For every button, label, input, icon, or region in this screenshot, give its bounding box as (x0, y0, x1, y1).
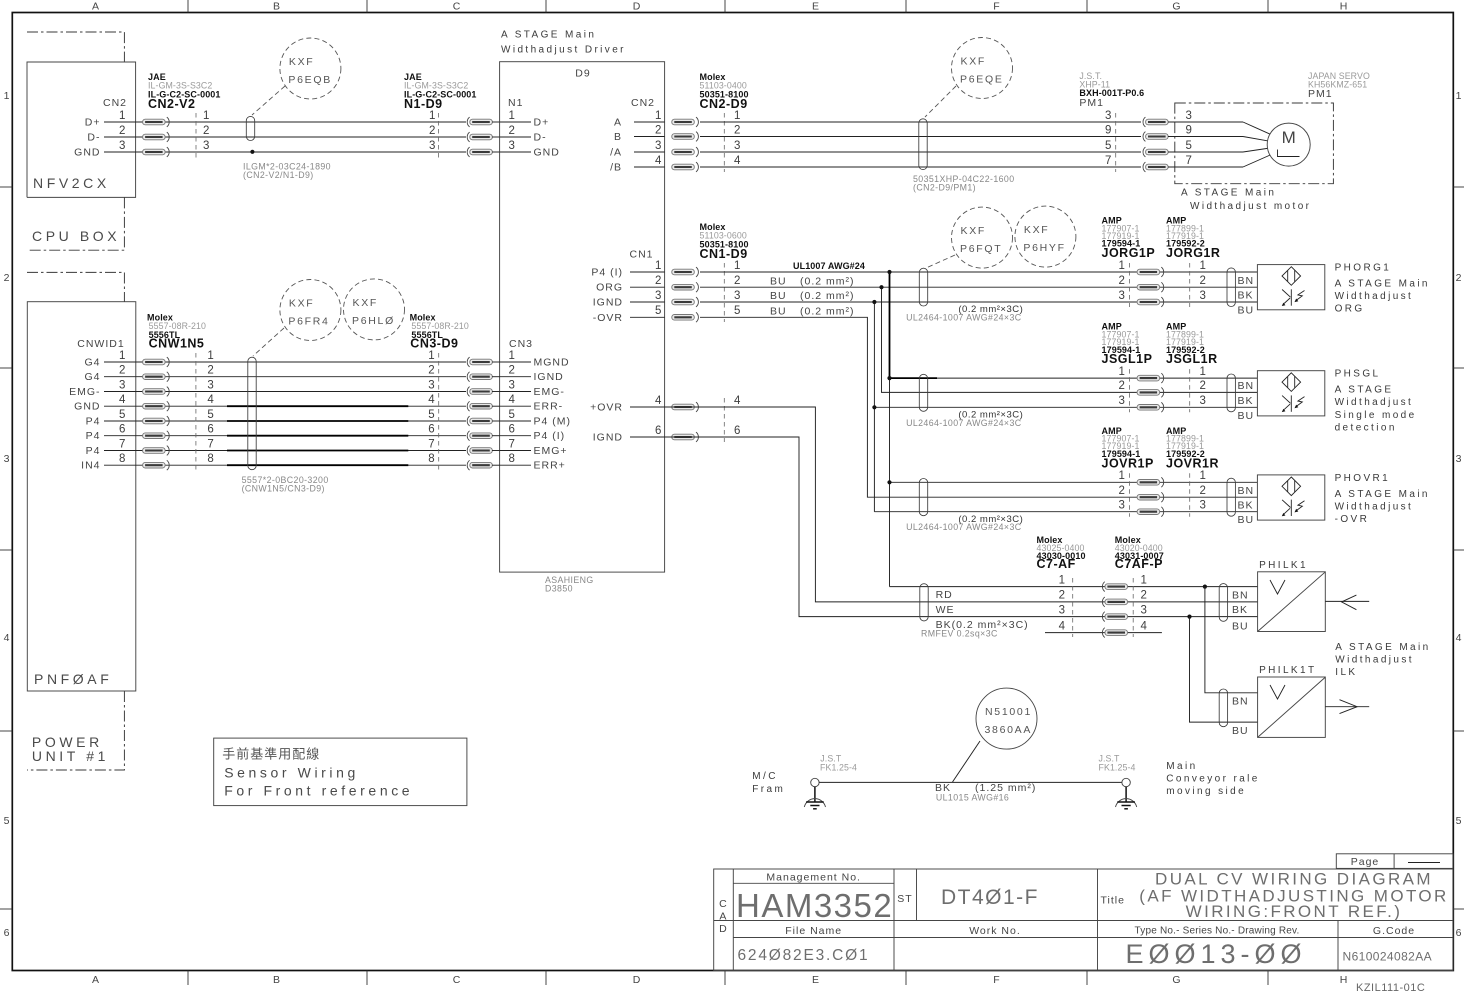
svg-text:PM1: PM1 (1308, 88, 1333, 100)
wire IGND to PHOVR1 pin3 (874, 511, 1257, 513)
connector N1 label (508, 97, 523, 109)
svg-text:(0.2 mm²): (0.2 mm²) (800, 290, 855, 302)
svg-text:UL2464-1007 AWG#24×3C: UL2464-1007 AWG#24×3C (906, 313, 1022, 323)
wire IGND feeder vertical (873, 302, 875, 512)
svg-text:CN1: CN1 (629, 249, 653, 261)
svg-text:JSGL1P: JSGL1P (1102, 352, 1153, 366)
svg-text:6: 6 (4, 927, 11, 939)
svg-text:G.Code: G.Code (1373, 925, 1415, 937)
svg-text:2: 2 (1119, 485, 1126, 497)
sensor box PHORG1 (1257, 265, 1324, 310)
svg-text:BK: BK (1232, 604, 1248, 616)
cable marker PHILK1 (1219, 584, 1227, 622)
svg-text:6: 6 (655, 425, 662, 437)
svg-text:1: 1 (1456, 90, 1463, 102)
svg-text:2: 2 (1059, 590, 1066, 602)
svg-text:E: E (812, 1, 820, 13)
svg-text:UL2464-1007 AWG#24×3C: UL2464-1007 AWG#24×3C (906, 418, 1022, 428)
dashed pin line JORG1R (1189, 263, 1191, 307)
svg-text:B: B (614, 131, 622, 143)
cable size label PHOVR1 (906, 514, 1023, 532)
svg-text:ST: ST (897, 893, 912, 905)
svg-text:手前基準用配線: 手前基準用配線 (222, 747, 320, 762)
terminal J.S.T right (1099, 754, 1136, 773)
svg-text:CN2-V2: CN2-V2 (148, 97, 195, 111)
svg-text:4: 4 (1059, 620, 1066, 632)
svg-text:6: 6 (119, 424, 126, 436)
svg-text:3: 3 (509, 379, 516, 391)
CNWID1 pin names and numbers (69, 350, 126, 472)
svg-text:/A: /A (610, 147, 622, 159)
svg-text:5: 5 (119, 409, 126, 421)
svg-text:C: C (453, 974, 462, 986)
svg-text:3: 3 (509, 140, 516, 152)
svg-text:Widthadjust: Widthadjust (1335, 291, 1414, 302)
junction dots CN1 nets (872, 270, 891, 485)
svg-text:2: 2 (734, 275, 741, 287)
svg-text:/B: /B (610, 162, 622, 174)
cable part number 5557 (242, 475, 329, 494)
svg-text:1: 1 (429, 110, 436, 122)
motor enclosure dash-dot box (1175, 103, 1334, 184)
CAD strip (719, 898, 728, 935)
svg-text:4: 4 (655, 395, 662, 407)
svg-text:3: 3 (1105, 110, 1112, 122)
file name value (738, 947, 870, 964)
svg-text:IN4: IN4 (81, 460, 100, 472)
svg-text:2: 2 (1141, 590, 1148, 602)
svg-text:P6EQB: P6EQB (288, 74, 332, 86)
cable size label PHORG1 (906, 304, 1023, 322)
svg-text:D9: D9 (575, 68, 590, 80)
svg-text:5: 5 (655, 305, 662, 317)
svg-text:3: 3 (119, 379, 126, 391)
type no header (1135, 926, 1300, 937)
svg-text:Single mode: Single mode (1335, 410, 1417, 421)
svg-text:JSGL1R: JSGL1R (1166, 352, 1218, 366)
PM1 crimp contacts (1143, 117, 1168, 172)
ground bonding wire (819, 781, 1122, 783)
CN1-D9 crimp contacts (672, 267, 699, 442)
svg-text:Fram: Fram (752, 784, 785, 795)
svg-text:IGND: IGND (593, 432, 623, 444)
svg-text:6: 6 (428, 424, 435, 436)
svg-text:1: 1 (734, 110, 741, 122)
svg-text:Conveyor rale: Conveyor rale (1166, 774, 1259, 785)
cable marker CN2-V2/N1-D9 (246, 116, 254, 140)
svg-text:2: 2 (509, 125, 516, 137)
CN2-D9 crimp contacts (672, 117, 699, 172)
svg-text:BN: BN (1232, 695, 1249, 707)
cable marker at sensor PHSGL (1227, 374, 1235, 412)
C7-AF pin4 stub (1045, 632, 1162, 634)
svg-text:4: 4 (509, 394, 516, 406)
svg-text:C: C (719, 898, 728, 910)
svg-text:2: 2 (1200, 380, 1207, 392)
svg-text:FK1.25-4: FK1.25-4 (820, 763, 857, 773)
PNF0AF label (34, 671, 112, 687)
dashed pin line CN3-D9 (438, 353, 440, 471)
svg-text:PHSGL: PHSGL (1335, 369, 1381, 380)
svg-text:D+: D+ (85, 117, 101, 129)
svg-text:Main: Main (1166, 761, 1197, 772)
svg-text:G4: G4 (84, 371, 100, 383)
cable part number ILGM (243, 162, 331, 181)
connector JORG1P pin numbers col1 (1119, 260, 1126, 302)
motor description (1181, 188, 1311, 213)
svg-text:A STAGE: A STAGE (1335, 385, 1394, 396)
wire P4(I) row1 (700, 271, 1257, 273)
wire P4(I) to PHSGL pin1 (890, 377, 1258, 379)
svg-text:2: 2 (1119, 380, 1126, 392)
svg-text:D: D (633, 1, 642, 13)
svg-text:BU: BU (770, 275, 787, 287)
svg-text:4: 4 (734, 395, 741, 407)
svg-text:(0.2 mm²): (0.2 mm²) (800, 306, 855, 318)
page box (1336, 854, 1453, 869)
svg-text:1: 1 (1059, 574, 1066, 586)
svg-text:4: 4 (207, 394, 214, 406)
junction dot BU net (1187, 615, 1191, 619)
CN2 driver pin stubs (610, 110, 665, 174)
balloon KXF P6FR4 (253, 280, 341, 357)
svg-text:GND: GND (74, 401, 100, 413)
D9 label (575, 68, 590, 80)
CN2-V2 pin numbers col2 (203, 110, 210, 152)
part block CN3-D9 (410, 313, 469, 351)
crimp contacts JOVR1P (1137, 477, 1164, 516)
svg-text:7: 7 (119, 438, 126, 450)
svg-text:A STAGE Main: A STAGE Main (1181, 188, 1276, 199)
wire CNWID1 rows thin (104, 362, 466, 465)
svg-text:D3850: D3850 (545, 584, 573, 594)
svg-text:A STAGE Main: A STAGE Main (1335, 489, 1430, 500)
ST cell (897, 893, 912, 905)
svg-text:3: 3 (1141, 604, 1148, 616)
svg-text:7: 7 (509, 438, 516, 450)
svg-text:3: 3 (734, 290, 741, 302)
svg-text:CNWID1: CNWID1 (77, 338, 124, 350)
wire CN2-D9 to PM1 (700, 122, 1141, 167)
svg-text:3: 3 (1200, 395, 1207, 407)
svg-text:KXF: KXF (961, 225, 987, 237)
svg-text:2: 2 (1456, 272, 1463, 284)
dashed pin line JOVR1P (1129, 473, 1131, 516)
sensor box PHSGL (1257, 371, 1324, 416)
junction on GND wire (250, 150, 254, 154)
svg-text:P6EQE: P6EQE (960, 74, 1004, 86)
main conveyor label (1166, 761, 1259, 797)
svg-text:8: 8 (428, 453, 435, 465)
wire +OVR to C7-AF pin2 (634, 407, 1258, 602)
Title label (1101, 895, 1125, 907)
dashed pin line CN1-D9 col2 (723, 263, 725, 442)
svg-text:CNW1N5: CNW1N5 (149, 337, 205, 351)
svg-text:3: 3 (119, 140, 126, 152)
cable marker RMFEV (920, 584, 928, 621)
svg-text:BU: BU (1232, 621, 1249, 633)
svg-text:8: 8 (119, 453, 126, 465)
AMP part block JORG1P/JORG1R (1102, 216, 1221, 261)
svg-text:3: 3 (1119, 395, 1126, 407)
wire BU to PHILK1T (1190, 617, 1258, 723)
svg-text:C7-AF: C7-AF (1037, 557, 1076, 571)
svg-text:FK1.25-4: FK1.25-4 (1099, 763, 1136, 773)
svg-text:2: 2 (207, 365, 214, 377)
svg-text:3: 3 (1200, 500, 1207, 512)
svg-text:B: B (273, 974, 281, 986)
svg-text:CN2: CN2 (103, 97, 127, 109)
svg-text:UL2464-1007 AWG#24×3C: UL2464-1007 AWG#24×3C (906, 522, 1022, 532)
svg-text:2: 2 (203, 125, 210, 137)
svg-text:IGND: IGND (593, 297, 623, 309)
svg-text:8: 8 (207, 453, 214, 465)
svg-text:ILK: ILK (1335, 667, 1357, 678)
svg-text:PHORG1: PHORG1 (1335, 263, 1392, 274)
svg-text:3: 3 (655, 290, 662, 302)
CN1 pin stubs lower (590, 395, 664, 444)
wire IGND row3 (700, 301, 1257, 303)
svg-text:JORG1R: JORG1R (1166, 246, 1220, 260)
svg-text:2: 2 (509, 365, 516, 377)
svg-text:3: 3 (428, 379, 435, 391)
N1 pin stubs (500, 110, 560, 159)
svg-text:P6HLØ: P6HLØ (352, 315, 395, 327)
part block CN2-D9 (700, 72, 749, 111)
svg-text:KXF: KXF (961, 56, 987, 68)
svg-text:C7AF-P: C7AF-P (1115, 557, 1163, 571)
svg-text:G: G (1172, 974, 1181, 986)
part block CNW1N5 (147, 313, 206, 351)
svg-text:(CN2-D9/PM1): (CN2-D9/PM1) (913, 183, 976, 193)
AMP part block JSGL1P/JSGL1R (1102, 322, 1218, 367)
PNF0AF box (27, 302, 136, 691)
NFV2CX label (33, 175, 110, 191)
wire ORG feeder to PHSGL pin2 (882, 287, 1258, 392)
ILK description (1335, 642, 1430, 678)
CN2 pin name labels (74, 117, 100, 159)
part block CN1-D9 (700, 222, 749, 261)
CN3 pin stubs (500, 350, 571, 472)
CPU BOX dash-dot boundary bottom (27, 197, 124, 250)
svg-text:P4: P4 (86, 416, 101, 428)
svg-text:RD: RD (936, 589, 953, 601)
svg-text:JORG1P: JORG1P (1102, 246, 1156, 260)
svg-text:BK: BK (1238, 499, 1254, 511)
cable part number 50351XHP (913, 174, 1015, 193)
gcode header (1373, 925, 1415, 937)
svg-text:4: 4 (4, 632, 11, 644)
wire ORG row2 (700, 286, 1257, 288)
svg-text:File Name: File Name (785, 925, 842, 937)
svg-text:D+: D+ (534, 117, 550, 129)
cable marker CN2-D9/PM1 (919, 119, 927, 170)
svg-text:4: 4 (734, 155, 741, 167)
svg-text:3: 3 (734, 140, 741, 152)
C7AF-P pin numbers col2 (1141, 574, 1148, 632)
connector CN2 label (103, 97, 127, 109)
svg-text:5: 5 (1456, 815, 1463, 827)
svg-text:P4 (I): P4 (I) (591, 267, 623, 279)
svg-text:WE: WE (936, 604, 955, 616)
svg-text:D: D (719, 923, 728, 935)
svg-text:6: 6 (1456, 927, 1463, 939)
svg-text:1: 1 (1200, 260, 1207, 272)
svg-text:Widthadjust motor: Widthadjust motor (1190, 201, 1311, 212)
management no cell (766, 872, 861, 884)
svg-text:CN3: CN3 (509, 338, 533, 350)
dashed pin line C7AF-P (1132, 578, 1134, 637)
svg-text:UNIT #1: UNIT #1 (32, 748, 109, 764)
svg-text:Type No.- Series No.- Drawing: Type No.- Series No.- Drawing Rev. (1135, 926, 1300, 937)
svg-text:KXF: KXF (289, 298, 315, 310)
svg-text:3: 3 (429, 140, 436, 152)
svg-text:5: 5 (428, 409, 435, 421)
wire colour labels RD WE BK (921, 589, 1029, 639)
svg-text:2: 2 (429, 125, 436, 137)
svg-text:A STAGE Main: A STAGE Main (501, 30, 596, 41)
wire P4(I) to PHOVR1 pin1 (890, 481, 1258, 483)
svg-text:BN: BN (1238, 485, 1255, 497)
svg-text:E: E (812, 974, 820, 986)
svg-text:-OVR: -OVR (593, 312, 623, 324)
CN2-D9 pin numbers col2 (734, 110, 741, 167)
svg-text:1: 1 (1200, 366, 1207, 378)
svg-text:P6HYF: P6HYF (1023, 242, 1065, 254)
svg-text:M: M (1282, 128, 1296, 147)
svg-text:PHILK1: PHILK1 (1259, 560, 1308, 571)
svg-text:2: 2 (1119, 275, 1126, 287)
CNW1N5 crimp contacts (143, 357, 170, 470)
svg-text:EØØ13-ØØ: EØØ13-ØØ (1125, 939, 1306, 969)
svg-text:UL1015 AWG#16: UL1015 AWG#16 (936, 793, 1009, 803)
connector CN2 (driver) label (631, 97, 655, 109)
svg-text:1: 1 (1119, 366, 1126, 378)
svg-text:BN: BN (1238, 275, 1255, 287)
connector JOVR1P pin numbers col1 (1119, 470, 1126, 511)
svg-text:GND: GND (534, 147, 560, 159)
svg-text:5: 5 (4, 815, 11, 827)
svg-text:4: 4 (119, 394, 126, 406)
balloon KXF P6EQE (925, 38, 1013, 118)
svg-text:1: 1 (509, 350, 516, 362)
svg-text:EMG-: EMG- (534, 386, 565, 398)
svg-text:6: 6 (207, 424, 214, 436)
svg-text:(CN2-V2/N1-D9): (CN2-V2/N1-D9) (243, 170, 314, 180)
file name header (785, 925, 842, 937)
svg-text:Widthadjust: Widthadjust (1335, 397, 1414, 408)
svg-text:+OVR: +OVR (590, 402, 623, 414)
svg-text:7: 7 (1105, 155, 1112, 167)
balloon KXF P6HYF (926, 206, 1076, 268)
svg-text:ERR-: ERR- (534, 401, 564, 413)
svg-text:For Front reference: For Front reference (224, 783, 413, 799)
CPU BOX label (32, 228, 120, 244)
connector JSGL1P pin numbers col1 (1119, 366, 1126, 407)
PHILK1T output arrow (1325, 700, 1369, 714)
svg-text:7: 7 (428, 438, 435, 450)
frame column ticks (188, 0, 1268, 985)
svg-text:H: H (1340, 974, 1349, 986)
svg-text:1: 1 (119, 350, 126, 362)
part block N1-D9 (404, 72, 477, 111)
svg-text:Work No.: Work No. (969, 925, 1021, 937)
svg-text:BU: BU (1232, 725, 1249, 737)
svg-text:GND: GND (74, 147, 100, 159)
svg-text:6: 6 (734, 425, 741, 437)
CN1-D9 pin numbers col2 (734, 260, 741, 437)
POWER UNIT label (32, 734, 109, 764)
svg-text:A: A (614, 117, 622, 129)
svg-text:P4: P4 (86, 445, 101, 457)
svg-text:G4: G4 (84, 357, 100, 369)
PM1 pin numbers col2 (1186, 110, 1193, 167)
junction dot BN net (1203, 585, 1207, 589)
svg-text:EMG+: EMG+ (534, 445, 568, 457)
wire BN to PHILK1T (1205, 587, 1258, 693)
svg-text:RMFEV 0.2sq×3C: RMFEV 0.2sq×3C (921, 629, 998, 639)
cable marker at sensor PHOVR1 (1227, 478, 1235, 516)
svg-text:IGND: IGND (534, 371, 564, 383)
svg-text:C: C (453, 1, 462, 13)
svg-text:6: 6 (509, 424, 516, 436)
svg-text:HAM3352: HAM3352 (736, 887, 893, 924)
dashed pin line N1-D9 (437, 113, 439, 158)
svg-text:BN: BN (1238, 380, 1255, 392)
svg-text:D-: D- (87, 132, 100, 144)
wire IGND6 to C7-AF pin3 (634, 437, 1258, 617)
svg-text:1: 1 (4, 90, 11, 102)
svg-text:BK: BK (1238, 290, 1254, 302)
svg-text:moving side: moving side (1166, 786, 1246, 797)
svg-text:9: 9 (1105, 124, 1112, 136)
wire N1-D9 crimp to box (492, 122, 500, 152)
svg-text:624Ø82E3.CØ1: 624Ø82E3.CØ1 (738, 947, 870, 964)
dashed pin line C7-AF (1072, 578, 1074, 637)
svg-text:B: B (273, 1, 281, 13)
svg-text:Widthadjust: Widthadjust (1335, 501, 1414, 512)
svg-text:N610024082AA: N610024082AA (1343, 950, 1433, 964)
svg-text:DT4Ø1-F: DT4Ø1-F (941, 886, 1039, 909)
svg-text:A STAGE Main: A STAGE Main (1335, 279, 1430, 290)
svg-text:3860AA: 3860AA (985, 724, 1033, 736)
management number HAM3352 (736, 887, 893, 924)
svg-text:1: 1 (1200, 470, 1207, 482)
NFV2CX box (27, 62, 136, 197)
svg-text:1: 1 (203, 110, 210, 122)
balloon N51001 (953, 688, 1038, 782)
svg-text:Management No.: Management No. (766, 872, 861, 884)
svg-text:7: 7 (207, 438, 214, 450)
dashed pin line PM1 (1115, 113, 1117, 172)
svg-text:3: 3 (1456, 453, 1463, 465)
svg-text:BU: BU (770, 306, 787, 318)
svg-text:3: 3 (655, 140, 662, 152)
svg-text:BU: BU (1238, 514, 1255, 526)
svg-text:1: 1 (509, 110, 516, 122)
svg-text:N1-D9: N1-D9 (404, 97, 443, 111)
dashed pin line JORG1P (1129, 263, 1131, 307)
part block CN2-V2 (148, 72, 221, 111)
frame row ticks (0, 187, 1464, 909)
drawing title text (1139, 870, 1448, 922)
sensor wiring note box (214, 738, 467, 806)
svg-text:Widthadjust: Widthadjust (1335, 655, 1414, 666)
svg-text:1: 1 (1119, 260, 1126, 272)
svg-text:3: 3 (207, 379, 214, 391)
svg-text:P4 (I): P4 (I) (534, 430, 566, 442)
svg-text:detection: detection (1335, 422, 1397, 433)
